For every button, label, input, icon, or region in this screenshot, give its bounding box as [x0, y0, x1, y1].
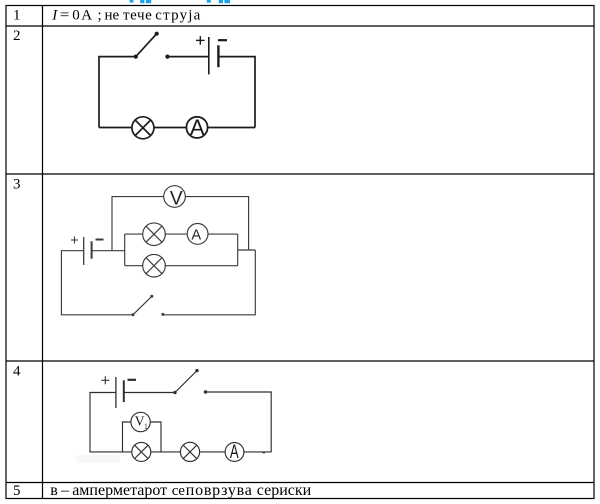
svg-text:3: 3 [13, 177, 21, 193]
node: left parallel junction bar [124, 234, 126, 266]
battery BT2 plus label [71, 237, 78, 244]
battery BT3 plus label [101, 376, 109, 384]
voltmeter V2 parallel branch [123, 422, 131, 452]
battery BT2 negative short plate [91, 241, 93, 258]
wire: lamp L3 to right junction [165, 265, 238, 267]
battery BT2 positive long plate [83, 237, 85, 265]
battery BT3 negative short plate [123, 380, 125, 402]
wire: bottom right segment [244, 451, 271, 453]
wire: top-left from corner to switch pivot [99, 57, 136, 128]
svg-text:V: V [170, 188, 183, 209]
wire: battery - plate to parallel-junction [92, 250, 125, 252]
wire: right rail down to bottom [163, 250, 255, 315]
svg-text:2: 2 [13, 28, 21, 44]
cropped blue text fragments at top edge [130, 0, 230, 3]
lamp L3 [143, 254, 166, 277]
svg-text:A: A [230, 442, 239, 463]
switch S1 pivot dot [134, 55, 138, 59]
wire: lamp L5 to ammeter A3 [200, 451, 226, 453]
battery BT3 positive long plate [115, 377, 117, 408]
svg-text:в–амперметаротсеповрзувасериск: в–амперметаротсеповрзувасериски [50, 482, 311, 499]
wire: bottom left corner to lamp [99, 127, 132, 129]
lamp L4 [132, 442, 151, 461]
svg-text:A: A [190, 115, 205, 140]
ammeter A2 [187, 224, 208, 245]
voltmeter V1 [164, 186, 186, 208]
row number cells [13, 8, 21, 500]
switch S2 blade [133, 296, 152, 315]
svg-text:5: 5 [13, 483, 21, 499]
wire: switch terminal to battery + plate [167, 56, 208, 58]
wire: ammeter to bottom-right corner [207, 127, 255, 129]
wire: battery loop left side down to bottom [61, 251, 132, 315]
wire: ammeter A2 to right junction [208, 233, 238, 235]
battery BT1 plus label [196, 36, 205, 45]
switch S3 blade-end dot [195, 369, 198, 372]
faint watermark smudge [76, 455, 120, 463]
wire: switch terminal to right rail and down [206, 392, 272, 452]
switch S1 blade [136, 34, 157, 57]
lamp L2 [143, 223, 166, 246]
svg-text:4: 4 [13, 364, 21, 380]
wire: junction to lamp L2 [125, 233, 143, 235]
lamp L1 [132, 117, 154, 139]
svg-text:1: 1 [144, 422, 148, 431]
wire: right junction to outer right rail [238, 249, 256, 251]
wire: junction to lamp L3 [125, 265, 143, 267]
wire: lamp to ammeter [154, 127, 187, 129]
svg-text:1: 1 [13, 8, 21, 24]
switch S3 blade [175, 371, 197, 393]
lamp L5 [180, 442, 199, 461]
wire: lamp L2 to ammeter A2 [165, 233, 188, 235]
battery BT1 negative short plate [217, 45, 219, 67]
svg-text:I=0A;нетечеструја: I=0A;нетечеструја [51, 8, 201, 24]
wire: voltmeter branch right [185, 197, 248, 250]
junction tick on bottom wire [263, 452, 266, 454]
svg-text:A: A [191, 228, 201, 244]
switch S1 blade-end dot [155, 32, 159, 36]
wire: lamp L4 to lamp L5 [151, 451, 181, 453]
ammeter A1 [186, 117, 207, 138]
switch S2 blade-end dot [150, 295, 153, 298]
battery BT2 minus label [96, 239, 104, 241]
battery BT1 minus label [218, 39, 227, 41]
switch S2 pivot dot [131, 313, 134, 316]
switch S3 open terminal dot [204, 390, 207, 393]
ammeter A3 [225, 443, 244, 462]
node: right parallel junction bar [237, 234, 239, 266]
switch S2 open terminal dot [161, 313, 164, 316]
voltmeter V2 [131, 412, 150, 431]
switch S3 pivot dot [173, 391, 176, 394]
wire: voltmeter branch left [112, 197, 164, 251]
wire: battery - plate to switch pivot [124, 392, 175, 394]
wire: battery - plate to top-right corner and down [218, 57, 255, 128]
battery BT1 positive long plate [208, 37, 210, 74]
battery BT3 minus label [128, 379, 137, 381]
wire: left rail [90, 393, 132, 452]
switch S1 open terminal dot [165, 55, 169, 59]
